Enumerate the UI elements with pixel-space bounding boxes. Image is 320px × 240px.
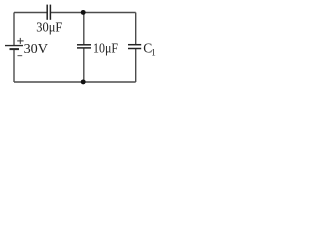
svg-text:30V: 30V	[24, 42, 48, 57]
svg-text:10μF: 10μF	[93, 41, 118, 56]
svg-text:1: 1	[151, 48, 156, 58]
svg-text:30μF: 30μF	[36, 19, 62, 34]
